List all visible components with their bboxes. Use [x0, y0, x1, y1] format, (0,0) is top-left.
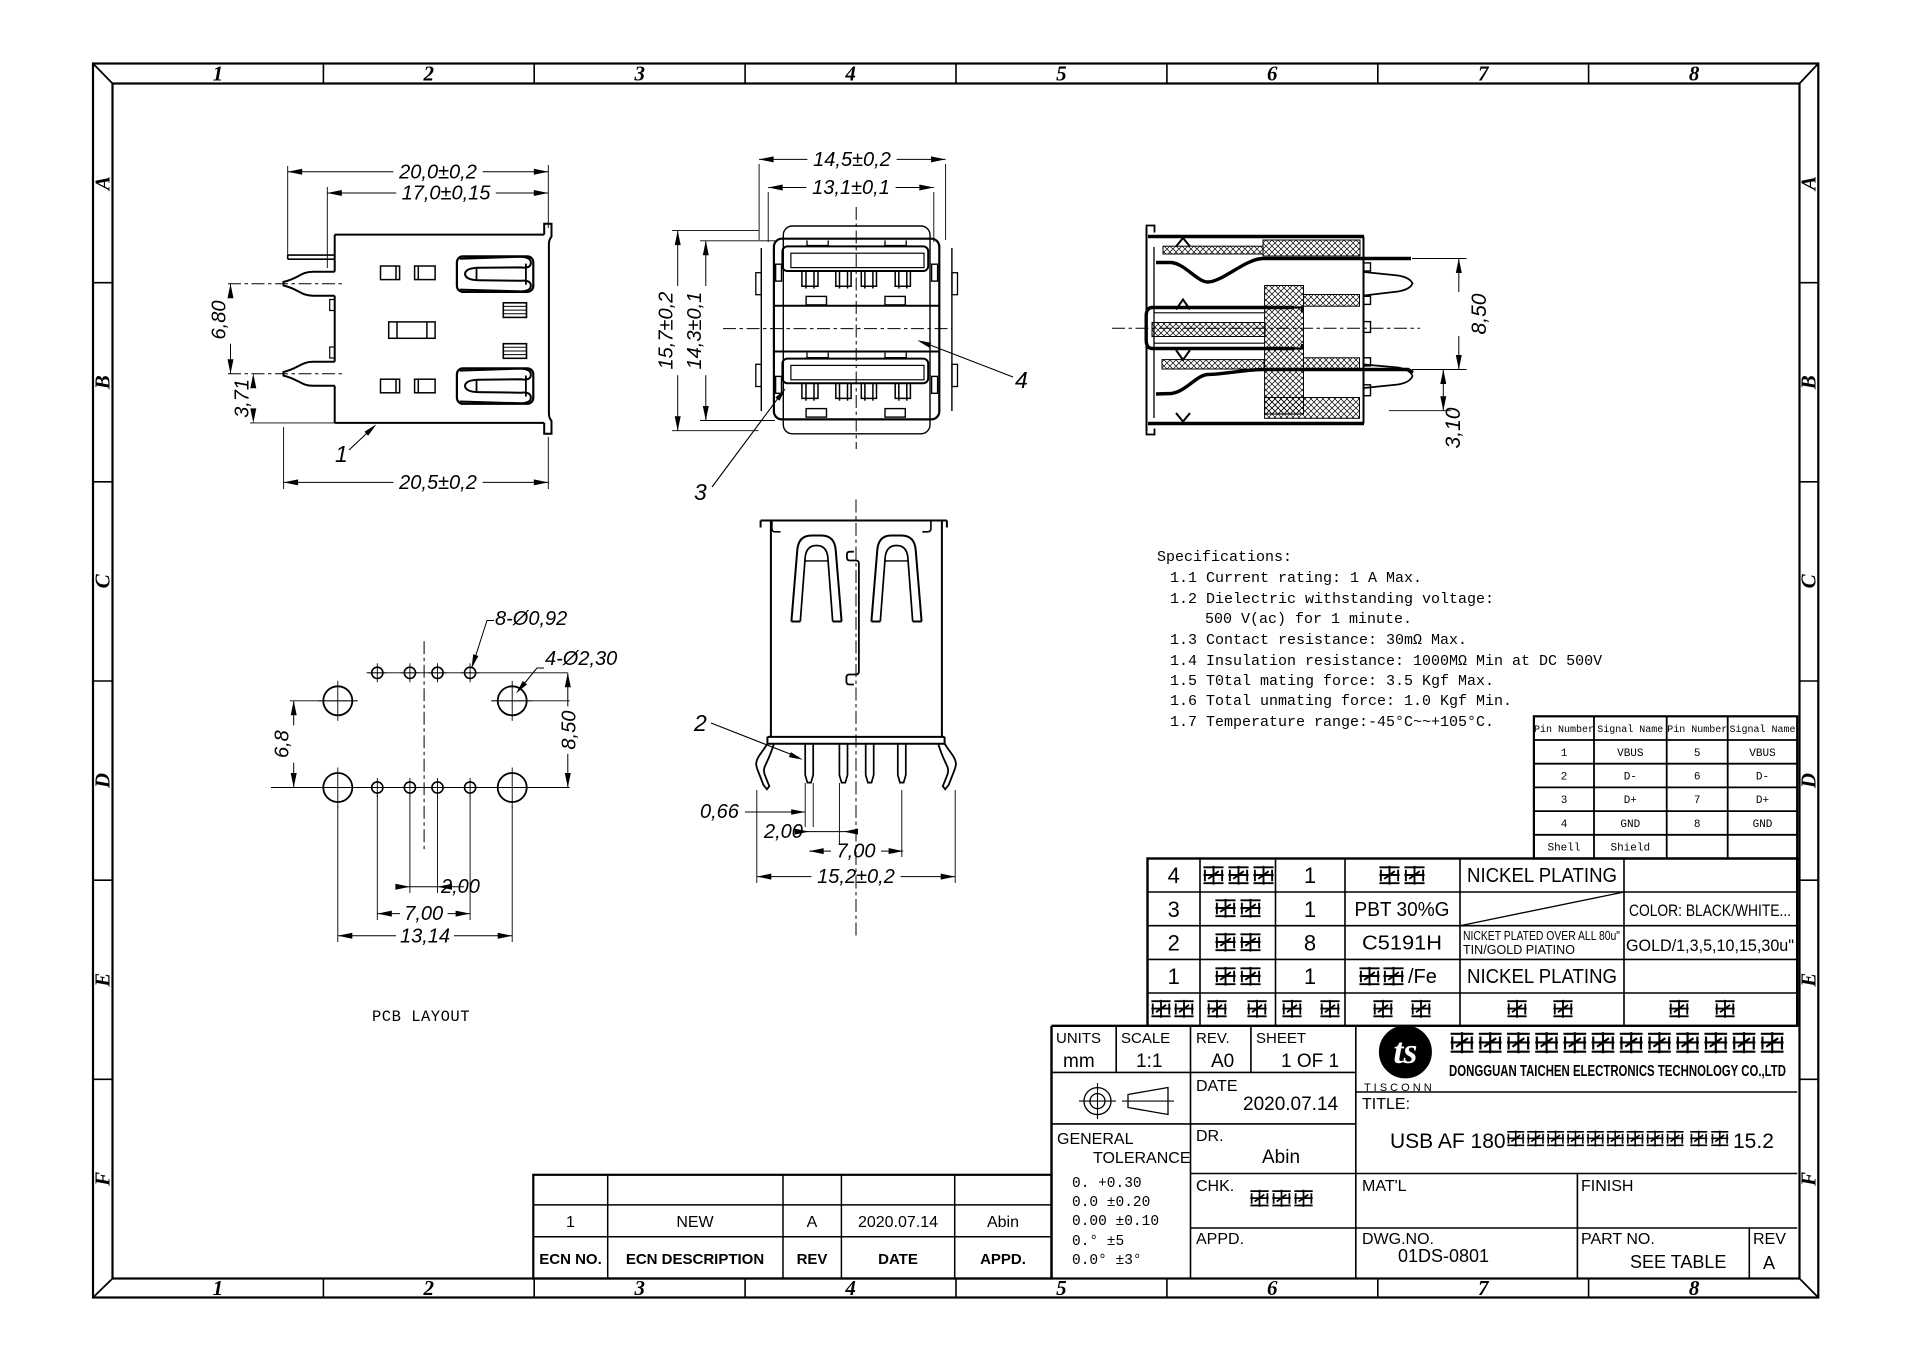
svg-text:4: 4 — [1015, 367, 1028, 393]
svg-text:1: 1 — [1168, 964, 1180, 989]
svg-text:8,50: 8,50 — [1468, 293, 1491, 334]
svg-text:1.3 Contact resistance: 30mΩ M: 1.3 Contact resistance: 30mΩ Max. — [1170, 632, 1467, 649]
svg-text:C: C — [91, 573, 115, 588]
svg-text:1 OF 1: 1 OF 1 — [1281, 1051, 1339, 1072]
svg-text:GENERAL: GENERAL — [1057, 1131, 1134, 1148]
svg-text:6: 6 — [1267, 1276, 1278, 1300]
svg-text:SEE TABLE: SEE TABLE — [1630, 1252, 1726, 1272]
svg-text:2: 2 — [423, 1276, 435, 1300]
svg-text:8-Ø0,92: 8-Ø0,92 — [495, 608, 567, 630]
svg-text:D-: D- — [1756, 772, 1769, 784]
svg-text:3: 3 — [1168, 897, 1180, 922]
svg-text:E: E — [91, 973, 115, 988]
svg-text:5: 5 — [1056, 62, 1067, 86]
svg-text:A: A — [1763, 1253, 1775, 1273]
svg-text:PBT 30%G: PBT 30%G — [1355, 899, 1450, 921]
svg-text:DATE: DATE — [1196, 1078, 1237, 1095]
svg-text:SCALE: SCALE — [1121, 1030, 1170, 1047]
svg-text:0,66: 0,66 — [700, 801, 740, 823]
svg-text:TIN/GOLD PIATINO: TIN/GOLD PIATINO — [1463, 943, 1575, 957]
svg-text:0.00 ±0.10: 0.00 ±0.10 — [1072, 1214, 1159, 1230]
svg-text:6,8: 6,8 — [272, 730, 294, 758]
svg-text:1: 1 — [566, 1214, 575, 1231]
svg-text:2,00: 2,00 — [763, 821, 803, 843]
svg-text:GND: GND — [1753, 819, 1773, 831]
svg-text:6: 6 — [1694, 772, 1701, 784]
svg-text:500 V(ac) for 1 minute.: 500 V(ac) for 1 minute. — [1205, 611, 1412, 628]
svg-text:NICKEL PLATING: NICKEL PLATING — [1467, 966, 1617, 988]
svg-text:NEW: NEW — [676, 1214, 714, 1231]
svg-text:14,3±0,1: 14,3±0,1 — [684, 292, 706, 370]
svg-text:D-: D- — [1624, 772, 1637, 784]
svg-text:Abin: Abin — [987, 1214, 1019, 1231]
svg-text:14,5±0,2: 14,5±0,2 — [813, 149, 891, 171]
svg-text:2: 2 — [1168, 931, 1180, 956]
svg-text:1: 1 — [335, 441, 348, 467]
svg-text:17,0±0,15: 17,0±0,15 — [402, 183, 492, 205]
svg-text:C5191H: C5191H — [1362, 933, 1442, 955]
svg-text:Shield: Shield — [1610, 843, 1650, 855]
svg-text:1.1 Current rating: 1 A Max.: 1.1 Current rating: 1 A Max. — [1170, 570, 1422, 587]
svg-text:0. +0.30: 0. +0.30 — [1072, 1176, 1142, 1192]
svg-text:B: B — [1797, 375, 1821, 390]
svg-text:01DS-0801: 01DS-0801 — [1398, 1246, 1489, 1266]
svg-text:1: 1 — [213, 62, 224, 86]
svg-text:COLOR: BLACK/WHITE...: COLOR: BLACK/WHITE... — [1629, 901, 1791, 920]
svg-text:DR.: DR. — [1196, 1128, 1224, 1145]
svg-text:1: 1 — [1304, 897, 1316, 922]
svg-text:0.° ±5: 0.° ±5 — [1072, 1234, 1124, 1250]
svg-text:UNITS: UNITS — [1056, 1030, 1101, 1047]
svg-text:1.6 Total unmating force: 1.0: 1.6 Total unmating force: 1.0 Kgf Min. — [1170, 693, 1512, 710]
svg-text:ECN DESCRIPTION: ECN DESCRIPTION — [626, 1251, 764, 1268]
svg-text:3,10: 3,10 — [1442, 407, 1465, 448]
svg-text:5: 5 — [1694, 748, 1701, 760]
svg-text:2: 2 — [423, 62, 435, 86]
svg-text:PART NO.: PART NO. — [1581, 1231, 1655, 1248]
svg-text:5: 5 — [1056, 1276, 1067, 1300]
svg-text:7: 7 — [1478, 62, 1490, 86]
svg-text:2020.07.14: 2020.07.14 — [858, 1214, 938, 1231]
svg-text:1.2 Dielectric withstanding vo: 1.2 Dielectric withstanding voltage: — [1170, 591, 1494, 608]
svg-text:PCB LAYOUT: PCB LAYOUT — [372, 1008, 470, 1026]
svg-text:7: 7 — [1694, 795, 1701, 807]
svg-text:REV: REV — [1753, 1231, 1786, 1248]
svg-text:D: D — [91, 773, 115, 789]
svg-text:DONGGUAN TAICHEN ELECTRONICS T: DONGGUAN TAICHEN ELECTRONICS TECHNOLOGY … — [1449, 1063, 1786, 1080]
svg-text:4: 4 — [1168, 863, 1180, 888]
svg-text:D: D — [1797, 773, 1821, 789]
svg-text:Pin Number: Pin Number — [1667, 724, 1727, 736]
svg-text:1.7 Temperature range:-45°C~~+: 1.7 Temperature range:-45°C~~+105°C. — [1170, 714, 1494, 731]
svg-text:NICKEL PLATING: NICKEL PLATING — [1467, 865, 1617, 887]
svg-text:A: A — [1797, 176, 1821, 192]
svg-text:3,71: 3,71 — [231, 379, 253, 418]
svg-text:Specifications:: Specifications: — [1157, 549, 1292, 566]
svg-text:15.2: 15.2 — [1733, 1130, 1774, 1153]
svg-text:8: 8 — [1304, 931, 1316, 956]
svg-text:CHK.: CHK. — [1196, 1178, 1234, 1195]
svg-text:NICKET PLATED OVER ALL 80u": NICKET PLATED OVER ALL 80u" — [1463, 929, 1620, 943]
svg-text:7: 7 — [1478, 1276, 1490, 1300]
svg-text:A: A — [807, 1214, 818, 1231]
svg-text:1.5 T0tal mating force: 3.5 Kg: 1.5 T0tal mating force: 3.5 Kgf Max. — [1170, 673, 1494, 690]
svg-text:0.0 ±0.20: 0.0 ±0.20 — [1072, 1195, 1150, 1211]
svg-text:20,5±0,2: 20,5±0,2 — [398, 472, 477, 494]
svg-text:ts: ts — [1393, 1031, 1417, 1071]
svg-text:B: B — [91, 375, 115, 390]
svg-text:4: 4 — [844, 62, 856, 86]
svg-text:8: 8 — [1689, 62, 1700, 86]
svg-text:APPD.: APPD. — [1196, 1231, 1244, 1248]
svg-text:mm: mm — [1063, 1051, 1095, 1072]
svg-text:Pin Number: Pin Number — [1534, 724, 1594, 736]
svg-text:0.0° ±3°: 0.0° ±3° — [1072, 1253, 1142, 1269]
svg-text:FINISH: FINISH — [1581, 1178, 1633, 1195]
svg-text:A0: A0 — [1211, 1051, 1234, 1072]
svg-text:F: F — [1797, 1172, 1821, 1187]
svg-text:2,00: 2,00 — [440, 876, 480, 898]
svg-text:6: 6 — [1267, 62, 1278, 86]
svg-text:REV: REV — [797, 1251, 828, 1268]
svg-text:1.4 Insulation resistance: 100: 1.4 Insulation resistance: 1000MΩ Min at… — [1170, 653, 1602, 670]
svg-text:TOLERANCE: TOLERANCE — [1093, 1150, 1191, 1167]
svg-text:USB AF 180: USB AF 180 — [1390, 1130, 1506, 1153]
svg-text:APPD.: APPD. — [980, 1251, 1026, 1268]
svg-text:7,00: 7,00 — [837, 841, 876, 863]
svg-text:15,7±0,2: 15,7±0,2 — [656, 292, 678, 370]
svg-text:SHEET: SHEET — [1256, 1030, 1306, 1047]
svg-text:F: F — [91, 1172, 115, 1187]
svg-text:1:1: 1:1 — [1136, 1051, 1162, 1072]
svg-text:1: 1 — [1304, 964, 1316, 989]
svg-text:3: 3 — [633, 62, 645, 86]
svg-text:Signal Name: Signal Name — [1729, 724, 1795, 736]
svg-text:8: 8 — [1694, 819, 1701, 831]
svg-text:GND: GND — [1620, 819, 1640, 831]
svg-text:1: 1 — [213, 1276, 224, 1300]
svg-text:VBUS: VBUS — [1617, 748, 1644, 760]
svg-text:A: A — [91, 176, 115, 192]
svg-text:15,2±0,2: 15,2±0,2 — [817, 866, 895, 888]
svg-text:6,80: 6,80 — [209, 301, 231, 340]
svg-text:3: 3 — [1561, 795, 1568, 807]
svg-text:DATE: DATE — [878, 1251, 918, 1268]
svg-text:7,00: 7,00 — [404, 903, 443, 925]
svg-text:/Fe: /Fe — [1408, 966, 1437, 988]
svg-text:3: 3 — [694, 479, 707, 505]
svg-text:E: E — [1797, 973, 1821, 988]
svg-text:1: 1 — [1304, 863, 1316, 888]
svg-text:ECN NO.: ECN NO. — [539, 1251, 602, 1268]
svg-text:C: C — [1797, 573, 1821, 588]
svg-text:Signal Name: Signal Name — [1597, 724, 1663, 736]
svg-text:MAT'L: MAT'L — [1362, 1178, 1407, 1195]
svg-text:Shell: Shell — [1547, 843, 1580, 855]
svg-text:8: 8 — [1689, 1276, 1700, 1300]
svg-text:GOLD/1,3,5,10,15,30u": GOLD/1,3,5,10,15,30u" — [1626, 936, 1794, 955]
svg-text:4: 4 — [1561, 819, 1568, 831]
svg-text:1: 1 — [1561, 748, 1568, 760]
svg-text:REV.: REV. — [1196, 1030, 1230, 1047]
svg-text:4-Ø2,30: 4-Ø2,30 — [545, 648, 617, 670]
svg-text:D+: D+ — [1624, 795, 1637, 807]
svg-text:13,14: 13,14 — [400, 925, 450, 947]
svg-text:D+: D+ — [1756, 795, 1769, 807]
svg-text:2: 2 — [693, 710, 707, 736]
svg-text:2020.07.14: 2020.07.14 — [1243, 1094, 1339, 1115]
svg-text:VBUS: VBUS — [1749, 748, 1776, 760]
svg-text:2: 2 — [1561, 772, 1568, 784]
svg-text:8,50: 8,50 — [558, 711, 580, 750]
svg-text:T I S C O N N: T I S C O N N — [1364, 1082, 1432, 1094]
svg-text:20,0±0,2: 20,0±0,2 — [398, 161, 477, 183]
svg-text:13,1±0,1: 13,1±0,1 — [812, 177, 890, 199]
svg-text:Abin: Abin — [1262, 1147, 1300, 1168]
svg-text:TITLE:: TITLE: — [1362, 1096, 1410, 1113]
